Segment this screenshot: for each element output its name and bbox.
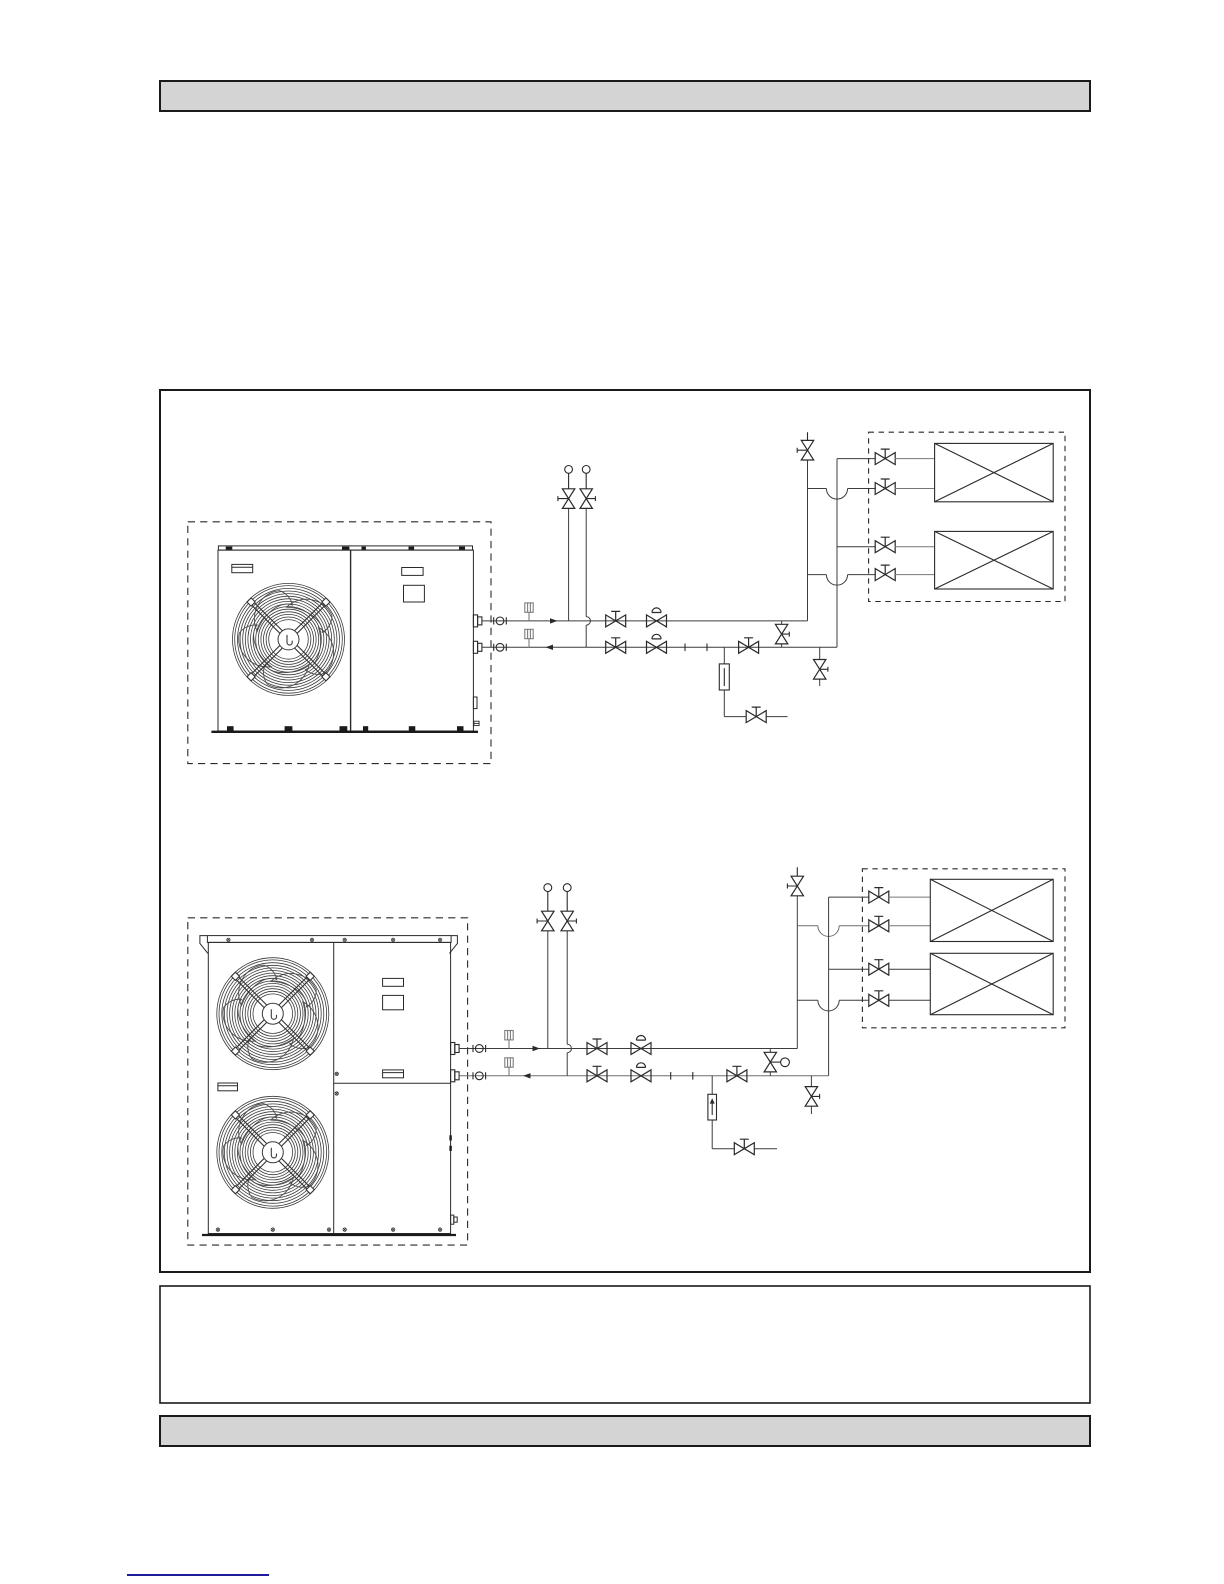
union tick 2 return 2	[692, 1072, 694, 1080]
drain outlet stub 2	[754, 1148, 777, 1150]
flow arrow supply	[550, 618, 558, 623]
unit 2 bottom right block	[451, 1215, 458, 1224]
unit 1 control panel louvre	[402, 568, 423, 576]
check valve supply 2	[631, 1036, 651, 1055]
unit 2 right edge marks	[449, 1135, 451, 1151]
shutoff valve on supply	[606, 611, 626, 627]
unit 1 water outlet flange	[473, 615, 482, 627]
fill valve 2 riser with hop unit 2	[567, 931, 571, 1076]
fancoil isolating valve 7	[869, 960, 889, 976]
fancoil connection stubs 2	[888, 897, 930, 926]
union on supply	[494, 617, 507, 625]
unit 2 control box	[383, 995, 404, 1009]
return riser tee to fancoil 2 upper port	[837, 546, 876, 548]
unit 1 top rail clips	[226, 547, 465, 550]
temperature sensor return 2	[505, 1058, 513, 1076]
union tick 1 return 2	[670, 1072, 672, 1080]
supply water pipe 2	[459, 1048, 797, 1050]
fancoil unit 1	[935, 443, 1054, 501]
outdoor unit 2 dashed enclosure	[188, 918, 468, 1245]
indoor units dashed enclosure	[869, 432, 1065, 601]
flow arrow return 2	[523, 1073, 531, 1078]
air vent valve on supply riser	[797, 432, 814, 460]
branch to fancoil 3 lower port with hop	[797, 926, 869, 937]
fancoil isolating valve 4	[875, 565, 895, 581]
fill valve 1 riser 2	[547, 931, 549, 1049]
unit 1 control panel box	[404, 585, 425, 602]
unit 1 side vent	[474, 721, 479, 725]
union tick 2 on return	[706, 644, 708, 652]
fill valve 2 unit 2	[561, 884, 576, 931]
fancoil isolating valve 3	[875, 537, 895, 553]
return riser tee to fancoil 4 upper port	[829, 968, 870, 970]
unit 2 base bar	[202, 1234, 456, 1236]
check valve return 2	[631, 1063, 651, 1082]
unit 2 fan guard lower	[216, 1096, 329, 1208]
bypass valve with gauge between pipes 2	[764, 1049, 789, 1076]
union on return	[494, 643, 507, 651]
fancoil isolating valve 6	[869, 916, 889, 932]
unit 2 top rail screws	[227, 938, 442, 941]
fancoil connection stubs	[895, 459, 935, 575]
indoor units dashed enclosure 2	[862, 869, 1065, 1028]
drain valve after strainer	[746, 707, 766, 723]
return water pipe	[482, 646, 837, 648]
footer blue rule	[127, 1574, 269, 1576]
unit 2 water outlet flange	[451, 1043, 460, 1055]
fancoil unit 4	[930, 953, 1053, 1014]
unit 2 divider screws	[335, 1072, 338, 1095]
unit 2 bottom screws	[216, 1228, 442, 1231]
outdoor unit 1 cabinet	[218, 546, 473, 731]
unit 2 nameplate	[218, 1083, 238, 1091]
balancing valve on return	[739, 638, 759, 654]
union on supply 2	[473, 1045, 486, 1053]
strainer branch	[724, 647, 746, 716]
fancoil isolating valve 2	[875, 479, 895, 495]
unit 1 fan guard	[231, 583, 344, 695]
branch to fancoil 2 lower port with hop	[808, 575, 876, 586]
unit 1 nameplate badge	[232, 564, 253, 572]
check valve on return	[647, 634, 667, 653]
union on return 2	[473, 1072, 486, 1080]
drain valve under return 2	[805, 1076, 819, 1114]
header grey title bar	[160, 81, 1090, 111]
fancoil unit 3	[930, 879, 1053, 941]
sight glass branch	[712, 1076, 734, 1149]
return water pipe 2	[459, 1075, 828, 1077]
air vent valve on supply riser 2	[787, 867, 803, 896]
shutoff valve on return	[606, 638, 626, 654]
temperature sensor on return	[525, 629, 533, 647]
sight glass body with flow arrow	[708, 1094, 717, 1120]
union tick 1 on return	[684, 644, 686, 652]
temperature sensor supply 2	[505, 1031, 513, 1049]
unit 1 water inlet flange	[473, 641, 482, 653]
drain outlet stub	[766, 716, 787, 718]
check valve on supply	[647, 608, 667, 627]
notes box	[160, 1286, 1090, 1403]
fill valve 1 riser	[568, 508, 570, 621]
fill valve 1	[558, 466, 575, 509]
return riser 2	[829, 897, 870, 1076]
fancoil isolating valve 1	[875, 449, 895, 465]
supply riser 2	[796, 896, 798, 1049]
unit 1 feet	[227, 726, 464, 731]
branch to fancoil 1 lower port with hop	[808, 489, 876, 500]
strainer body	[719, 664, 729, 690]
outdoor unit 1 dashed enclosure	[188, 522, 491, 764]
supply water pipe	[482, 620, 808, 622]
unit 2 fan guard upper	[216, 958, 329, 1070]
shutoff valve return 2	[587, 1066, 607, 1082]
footer grey bar	[160, 1416, 1090, 1446]
drain valve under return	[814, 647, 828, 686]
unit 1 side hinge	[473, 697, 477, 709]
main diagram frame	[160, 390, 1090, 1272]
drain valve after sight glass	[734, 1139, 754, 1155]
temperature sensor on supply	[525, 603, 533, 621]
branch to fancoil 4 lower port with hop	[797, 1000, 869, 1011]
unit 2 water inlet flange	[451, 1070, 460, 1082]
fill valve 2	[580, 466, 595, 509]
fancoil unit 2	[935, 531, 1054, 589]
fill valve 1 unit 2	[537, 884, 554, 931]
outdoor unit 2 cabinet	[200, 936, 458, 1234]
bypass valve between pipes	[775, 621, 789, 647]
balancing valve return 2	[727, 1066, 747, 1082]
fill valve 2 riser with hop over supply	[586, 508, 590, 647]
return riser	[837, 459, 876, 648]
unit 2 louvre rect	[383, 978, 404, 986]
flow arrow return	[546, 645, 554, 650]
unit 1 base bar	[211, 731, 478, 733]
supply riser	[807, 460, 809, 621]
shutoff valve supply 2	[587, 1039, 607, 1055]
fancoil isolating valve 8	[869, 991, 889, 1007]
unit 2 side label	[383, 1070, 404, 1078]
flow arrow supply 2	[533, 1046, 541, 1051]
fancoil isolating valve 5	[869, 888, 889, 904]
